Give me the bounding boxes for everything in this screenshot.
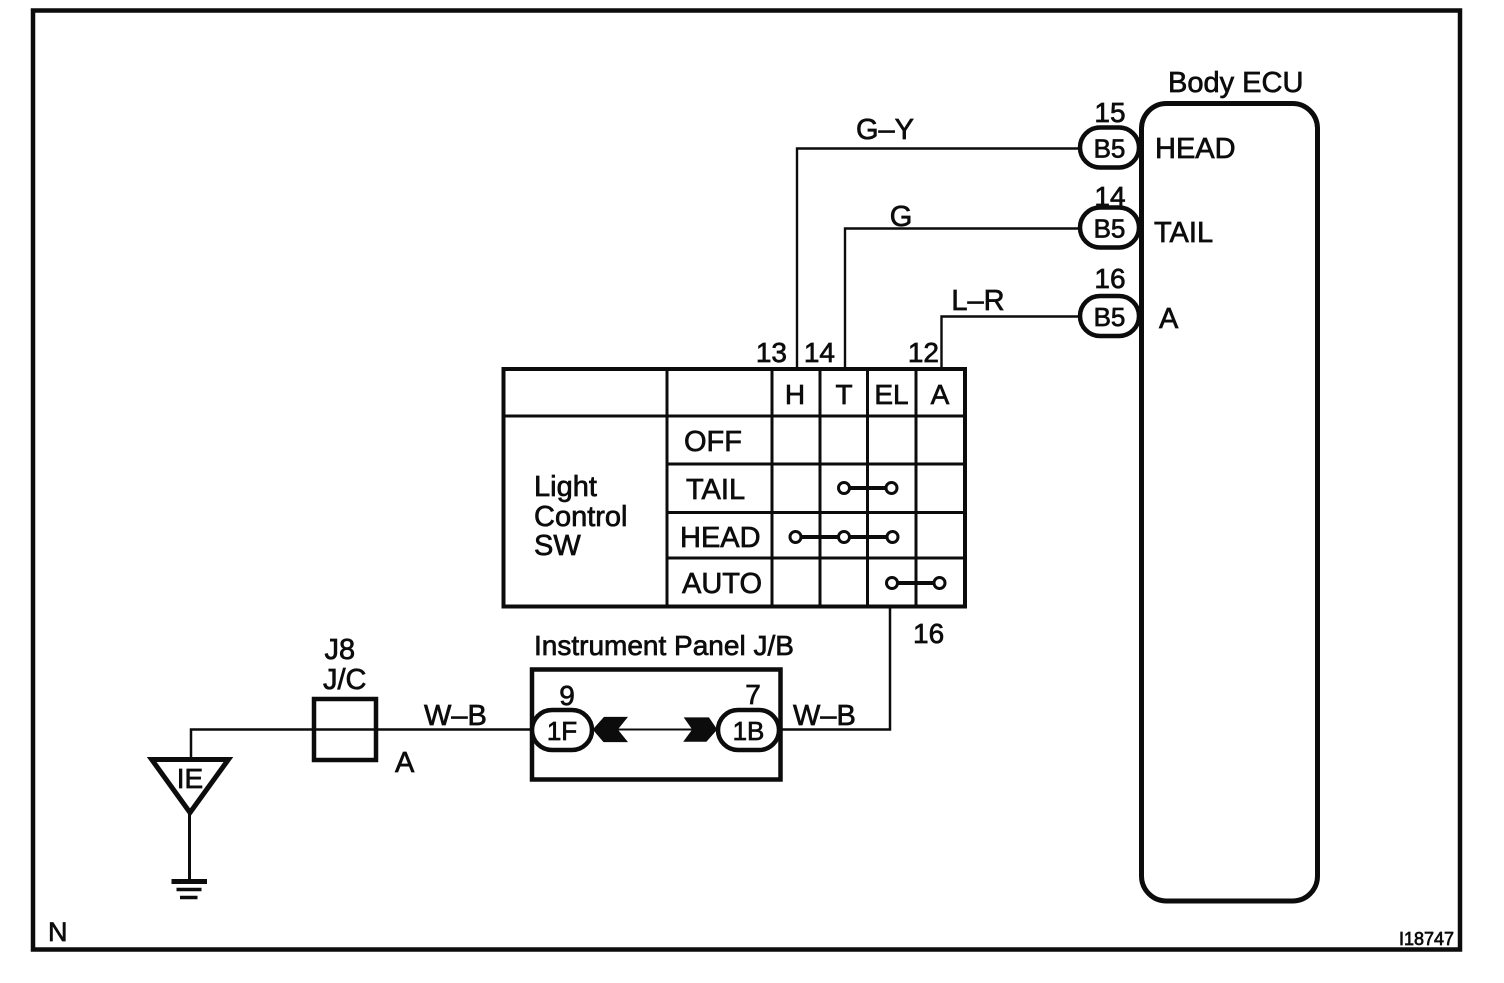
svg-text:SW: SW (534, 530, 581, 562)
svg-text:TAIL: TAIL (686, 474, 745, 506)
connector B5 pin 16 (1080, 296, 1139, 336)
table horizontal divider HEAD/AUTO (667, 557, 965, 560)
connector 1F (532, 710, 592, 750)
wire L-R (pin 12 to B5-16) (942, 317, 1080, 370)
svg-text:N: N (48, 917, 68, 947)
svg-text:Body ECU: Body ECU (1168, 67, 1303, 99)
table vertical divider col2/H (771, 369, 774, 607)
svg-text:Instrument Panel J/B: Instrument Panel J/B (534, 630, 794, 661)
svg-text:A: A (1159, 303, 1179, 335)
svg-text:B5: B5 (1094, 214, 1126, 244)
svg-text:J8: J8 (325, 634, 356, 666)
svg-text:EL: EL (874, 379, 908, 410)
ground triangle IE (152, 760, 229, 813)
svg-text:A: A (931, 379, 950, 410)
connector 1B (718, 710, 779, 750)
svg-text:A: A (395, 747, 415, 779)
svg-text:Light: Light (534, 471, 597, 503)
svg-text:1F: 1F (547, 716, 577, 746)
svg-text:HEAD: HEAD (1155, 133, 1236, 165)
svg-text:7: 7 (745, 679, 761, 710)
wire triangle to ground (188, 813, 191, 880)
wire G-Y (pin 13 to B5-15) (797, 149, 1080, 370)
svg-text:B5: B5 (1094, 134, 1126, 164)
connector B5 pin 15 (1080, 128, 1139, 168)
switch table outer box (504, 369, 966, 607)
switch contact HEAD row (H-T-EL) (790, 532, 898, 543)
ground symbol (172, 882, 208, 898)
wire EL pin 16 down to 1B (779, 607, 890, 730)
svg-text:16: 16 (913, 618, 944, 649)
svg-text:G–Y: G–Y (856, 114, 914, 146)
svg-text:I18747: I18747 (1399, 929, 1454, 949)
svg-text:1B: 1B (733, 716, 765, 746)
svg-text:L–R: L–R (951, 285, 1004, 317)
svg-text:B5: B5 (1094, 302, 1126, 332)
connector B5 pin 14 (1080, 208, 1139, 248)
Instrument Panel J/B box (532, 670, 781, 780)
svg-text:9: 9 (559, 680, 575, 711)
table vertical divider H/T (819, 369, 822, 607)
svg-text:14: 14 (804, 337, 835, 368)
table horizontal divider header (504, 415, 966, 418)
svg-text:AUTO: AUTO (682, 568, 762, 600)
svg-text:H: H (785, 379, 805, 410)
svg-text:T: T (835, 379, 852, 410)
svg-text:Control: Control (534, 501, 628, 533)
arrow left (to 1F) (593, 717, 628, 742)
svg-text:IE: IE (177, 763, 203, 794)
switch contact TAIL row (T-EL) (839, 483, 898, 494)
wire G (pin 14 to B5-14) (845, 229, 1080, 370)
table vertical divider T/EL (866, 369, 869, 607)
wire between 1F and 1B (592, 729, 718, 731)
svg-text:13: 13 (756, 337, 787, 368)
table vertical divider EL/A (915, 369, 918, 607)
svg-text:J/C: J/C (323, 664, 367, 696)
svg-text:TAIL: TAIL (1154, 217, 1213, 249)
svg-text:W–B: W–B (793, 700, 856, 732)
table horizontal divider TAIL/HEAD (667, 511, 965, 514)
table horizontal divider OFF/TAIL (667, 463, 965, 466)
svg-text:W–B: W–B (424, 700, 487, 732)
wire ground to 1F (191, 730, 532, 760)
arrow right (to 1B) (683, 717, 717, 741)
switch contact AUTO row (EL-A) (887, 578, 946, 589)
Body ECU box U1 (1142, 104, 1318, 902)
svg-text:12: 12 (908, 337, 939, 368)
svg-text:OFF: OFF (684, 426, 742, 458)
junction J8 box (314, 699, 376, 760)
svg-text:HEAD: HEAD (680, 522, 761, 554)
svg-text:G: G (890, 201, 913, 233)
table vertical divider col1/col2 (666, 369, 669, 607)
svg-text:16: 16 (1094, 263, 1125, 294)
svg-text:15: 15 (1094, 97, 1125, 128)
